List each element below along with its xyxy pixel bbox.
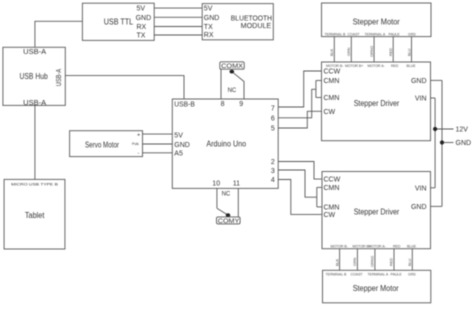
wire driver2 VIN to 12V bus xyxy=(431,187,436,189)
wire motor1 GRN xyxy=(350,37,352,62)
svg-text:MODULE: MODULE xyxy=(241,23,272,30)
12V stub wire xyxy=(435,128,453,130)
wire driver1 CMN2 stub xyxy=(316,97,322,99)
wire Arduino 5 to driver1 CW xyxy=(278,111,321,128)
svg-text:VIN: VIN xyxy=(415,185,427,192)
svg-text:TERMINAL B: TERMINAL B xyxy=(326,272,348,276)
svg-text:Tablet: Tablet xyxy=(25,211,45,220)
svg-text:GND: GND xyxy=(136,15,152,22)
svg-text:RED: RED xyxy=(389,48,393,56)
wire motor1 BLU xyxy=(411,37,413,62)
Tablet box xyxy=(4,179,65,249)
Bluetooth module box xyxy=(202,4,273,40)
svg-text:10: 10 xyxy=(212,181,220,188)
GND stub wire xyxy=(442,142,454,144)
switch SW2 COMY label box xyxy=(217,217,241,224)
svg-text:ORNG: ORNG xyxy=(370,46,374,57)
svg-text:5V: 5V xyxy=(204,6,213,13)
svg-text:GRD: GRD xyxy=(408,32,416,36)
wire servo - to Arduino A5 xyxy=(143,152,173,154)
wire motor1 ORNG xyxy=(373,37,375,62)
wire driver2 ORNG xyxy=(374,249,376,271)
wire driver2 GRN xyxy=(356,249,358,271)
wire Arduino 6 to driver1 CMN bus xyxy=(278,89,316,118)
svg-text:CMN: CMN xyxy=(324,204,340,211)
switch SW2 common dot xyxy=(226,213,231,217)
wire TTL GND to BT GND xyxy=(154,16,202,18)
svg-text:PAULE: PAULE xyxy=(391,272,403,276)
svg-text:7: 7 xyxy=(271,105,275,112)
svg-text:COMY: COMY xyxy=(218,219,240,225)
svg-text:USB-B: USB-B xyxy=(174,101,195,108)
svg-text:Stepper Driver: Stepper Driver xyxy=(354,207,400,216)
svg-text:MOTOR B-: MOTOR B- xyxy=(326,64,344,68)
svg-text:BLK: BLK xyxy=(330,48,334,56)
svg-text:2: 2 xyxy=(271,159,275,166)
svg-text:5: 5 xyxy=(271,126,275,133)
svg-text:GND: GND xyxy=(411,78,427,85)
svg-text:MOTOR A-: MOTOR A- xyxy=(369,244,387,248)
wire driver2 BLU xyxy=(411,249,413,271)
svg-text:MOTOR B+: MOTOR B+ xyxy=(345,64,363,68)
wire Arduino 7 to driver1 CCW xyxy=(278,71,321,107)
wire driver1 GND to GND bus xyxy=(431,79,443,81)
svg-text:+: + xyxy=(137,132,140,138)
switch SW1 common dot xyxy=(230,70,235,74)
svg-text:BLU: BLU xyxy=(408,258,412,266)
wire hub bottom USB-A to tablet xyxy=(34,105,36,179)
junction dot 12V xyxy=(433,127,437,131)
svg-text:TX: TX xyxy=(204,24,213,31)
svg-text:USB-A: USB-A xyxy=(23,49,46,56)
svg-text:Stepper Motor: Stepper Motor xyxy=(353,284,399,293)
svg-text:GRN: GRN xyxy=(353,257,357,266)
svg-text:MOTOR A-: MOTOR A- xyxy=(368,64,386,68)
svg-text:Servo Motor: Servo Motor xyxy=(85,140,119,149)
wire driver2 CMN tie xyxy=(316,187,318,207)
svg-text:4: 4 xyxy=(271,177,275,184)
svg-text:TERMINAL A: TERMINAL A xyxy=(365,32,386,36)
svg-text:5V: 5V xyxy=(174,132,183,139)
wire driver1 VIN to 12V bus xyxy=(431,97,436,99)
svg-text:NC: NC xyxy=(228,88,237,94)
svg-text:GRD: GRD xyxy=(408,272,416,276)
svg-text:NC: NC xyxy=(222,191,231,197)
svg-text:TERMINAL B: TERMINAL B xyxy=(325,32,347,36)
svg-text:GND: GND xyxy=(174,142,190,149)
svg-text:PAULE: PAULE xyxy=(389,32,401,36)
svg-text:6: 6 xyxy=(271,116,275,123)
12V bus xyxy=(434,98,436,188)
wire driver2 BLK xyxy=(339,249,341,271)
wire TTL RX to BT TX xyxy=(154,26,202,28)
junction dot GND xyxy=(440,140,444,144)
motor2 terminal labels xyxy=(326,272,417,276)
Servo Motor box xyxy=(70,131,143,157)
switch SW1 COMX label box xyxy=(220,62,244,69)
switch SW1 COMX wire from pin 8 xyxy=(220,70,222,100)
svg-text:CMN: CMN xyxy=(324,78,340,85)
svg-text:USB TTL: USB TTL xyxy=(104,18,134,27)
switch SW2 arm xyxy=(217,208,227,214)
svg-text:5V: 5V xyxy=(137,6,146,13)
wire driver2 GND to GND bus xyxy=(431,205,443,207)
Stepper Motor 1 box xyxy=(322,3,432,37)
svg-text:Arduino Uno: Arduino Uno xyxy=(206,139,246,148)
motor1 terminal labels xyxy=(325,32,417,36)
wire Arduino 2 to driver2 CCW xyxy=(278,162,322,180)
svg-text:CMN: CMN xyxy=(324,95,340,102)
svg-text:BLUE: BLUE xyxy=(407,244,417,248)
switch SW1 arm to pin 9 xyxy=(233,73,244,99)
wire hub right USB-A to Arduino USB-B xyxy=(65,76,184,99)
wire motor1 BLK xyxy=(333,37,335,62)
switch SW2 wire from pin 11 xyxy=(237,188,239,217)
svg-text:BLUETOOTH: BLUETOOTH xyxy=(231,16,272,23)
svg-text:BLU: BLU xyxy=(407,48,411,56)
svg-text:TX: TX xyxy=(137,33,146,40)
svg-text:VIN: VIN xyxy=(415,96,427,103)
wire driver1 CMN tie xyxy=(315,81,317,98)
Stepper Motor 2 box xyxy=(323,270,431,303)
svg-text:CCW: CCW xyxy=(324,69,341,76)
svg-text:ORNG: ORNG xyxy=(371,256,375,267)
Stepper Driver 2 box xyxy=(322,172,431,249)
svg-text:USB Hub: USB Hub xyxy=(20,72,49,81)
svg-text:RED: RED xyxy=(391,64,399,68)
svg-text:COAST: COAST xyxy=(351,272,364,276)
svg-text:RED: RED xyxy=(393,244,401,248)
wire servo Puls to Arduino GND xyxy=(143,143,173,145)
wire TTL 5V to BT 5V xyxy=(154,7,202,9)
svg-text:RX: RX xyxy=(137,24,147,31)
wire Arduino 4 to driver2 CW xyxy=(278,180,322,215)
svg-text:CMN: CMN xyxy=(324,185,340,192)
svg-text:MICRO USB TYPE B: MICRO USB TYPE B xyxy=(11,181,58,186)
svg-text:RX: RX xyxy=(204,32,214,39)
svg-text:MOTOR B-: MOTOR B- xyxy=(331,244,349,248)
svg-text:COMX: COMX xyxy=(221,64,243,70)
svg-text:BLK: BLK xyxy=(335,258,339,266)
GND bus xyxy=(441,80,443,206)
svg-text:8: 8 xyxy=(221,101,225,108)
svg-text:GND: GND xyxy=(204,15,220,22)
svg-text:GND: GND xyxy=(411,204,427,211)
USB Hub box xyxy=(3,47,65,105)
USB TTL box xyxy=(82,3,154,40)
wire driver1 CMN1 stub xyxy=(316,80,322,82)
svg-text:Puls: Puls xyxy=(132,142,139,146)
svg-text:COAST: COAST xyxy=(348,32,361,36)
svg-text:BLUE: BLUE xyxy=(407,64,417,68)
wire TTL TX to BT RX xyxy=(154,34,202,36)
svg-text:Stepper Driver: Stepper Driver xyxy=(354,99,400,108)
svg-text:-: - xyxy=(138,151,140,157)
wire motor1 RED xyxy=(392,37,394,62)
wire Arduino 3 to driver2 CMN bus xyxy=(278,170,317,197)
svg-text:USB-A: USB-A xyxy=(56,69,63,87)
driver2 motor terminal labels xyxy=(331,244,417,248)
Arduino Uno box U1 xyxy=(172,99,278,188)
driver1 motor terminal labels xyxy=(326,64,416,68)
wire hub top USB-A to USB TTL xyxy=(35,21,83,47)
svg-text:CW: CW xyxy=(324,109,336,116)
svg-text:12V: 12V xyxy=(456,127,469,134)
wire servo + to Arduino 5V xyxy=(143,133,173,135)
wire driver2 CMN1 stub xyxy=(317,186,322,188)
svg-text:CW: CW xyxy=(324,212,336,219)
svg-text:GND: GND xyxy=(456,140,472,147)
svg-text:3: 3 xyxy=(271,168,275,175)
svg-text:CCW: CCW xyxy=(324,177,341,184)
svg-text:A5: A5 xyxy=(174,151,183,158)
switch SW2 COMY wire from pin 10 xyxy=(216,188,218,208)
svg-text:9: 9 xyxy=(239,101,243,108)
svg-text:TERMINAL A: TERMINAL A xyxy=(368,272,389,276)
svg-text:RED: RED xyxy=(390,258,394,266)
wire driver2 CMN2 stub xyxy=(317,206,322,208)
wire driver2 RED xyxy=(393,249,395,271)
svg-text:GRN: GRN xyxy=(347,47,351,56)
svg-text:11: 11 xyxy=(233,181,240,188)
Stepper Driver 1 box xyxy=(322,62,431,141)
svg-text:Stepper Motor: Stepper Motor xyxy=(353,18,401,27)
